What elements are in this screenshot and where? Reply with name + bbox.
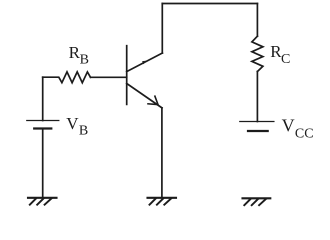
svg-text:C: C	[281, 52, 290, 67]
resistor R_B	[43, 72, 91, 83]
ground middle	[148, 198, 177, 205]
svg-text:CC: CC	[295, 127, 314, 142]
transistor Q1 collector arrow	[143, 61, 147, 64]
svg-text:V: V	[66, 114, 79, 133]
resistor R_C	[252, 36, 263, 71]
wire right riser	[256, 4, 258, 37]
label R_C	[270, 42, 290, 67]
transistor Q1 collector lead	[127, 53, 163, 72]
ground right	[243, 198, 271, 205]
svg-text:B: B	[80, 53, 89, 68]
transistor Q1 base bar	[126, 46, 128, 105]
label R_B	[69, 43, 89, 68]
svg-text:B: B	[79, 123, 88, 138]
battery V_B short plate	[34, 127, 51, 129]
battery V_CC long plate	[240, 121, 274, 123]
label V_B	[66, 114, 88, 138]
wire resistor to battery	[256, 72, 258, 122]
ground left	[28, 198, 57, 205]
wire top rail	[162, 3, 257, 5]
battery V_B long plate	[27, 120, 59, 122]
wire emitter to ground	[161, 108, 163, 198]
wire left vertical to battery	[42, 77, 44, 120]
transistor Q1 emitter arrow	[148, 96, 158, 104]
wire collector riser	[161, 4, 163, 54]
label V_CC	[282, 116, 314, 142]
wire battery to ground left	[42, 129, 44, 198]
transistor Q1 emitter lead	[127, 84, 162, 108]
battery V_CC short plate	[248, 130, 268, 132]
wire base	[91, 76, 127, 78]
svg-text:V: V	[282, 116, 295, 136]
